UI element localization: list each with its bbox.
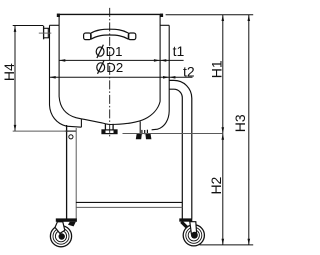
- svg-text:D2: D2: [106, 60, 123, 75]
- svg-text:H2: H2: [208, 176, 224, 194]
- svg-text:H3: H3: [232, 114, 248, 132]
- svg-text:D1: D1: [106, 44, 123, 59]
- svg-text:t2: t2: [183, 63, 195, 79]
- svg-text:H4: H4: [1, 63, 17, 81]
- svg-text:H1: H1: [209, 60, 225, 78]
- svg-text:t1: t1: [173, 43, 185, 59]
